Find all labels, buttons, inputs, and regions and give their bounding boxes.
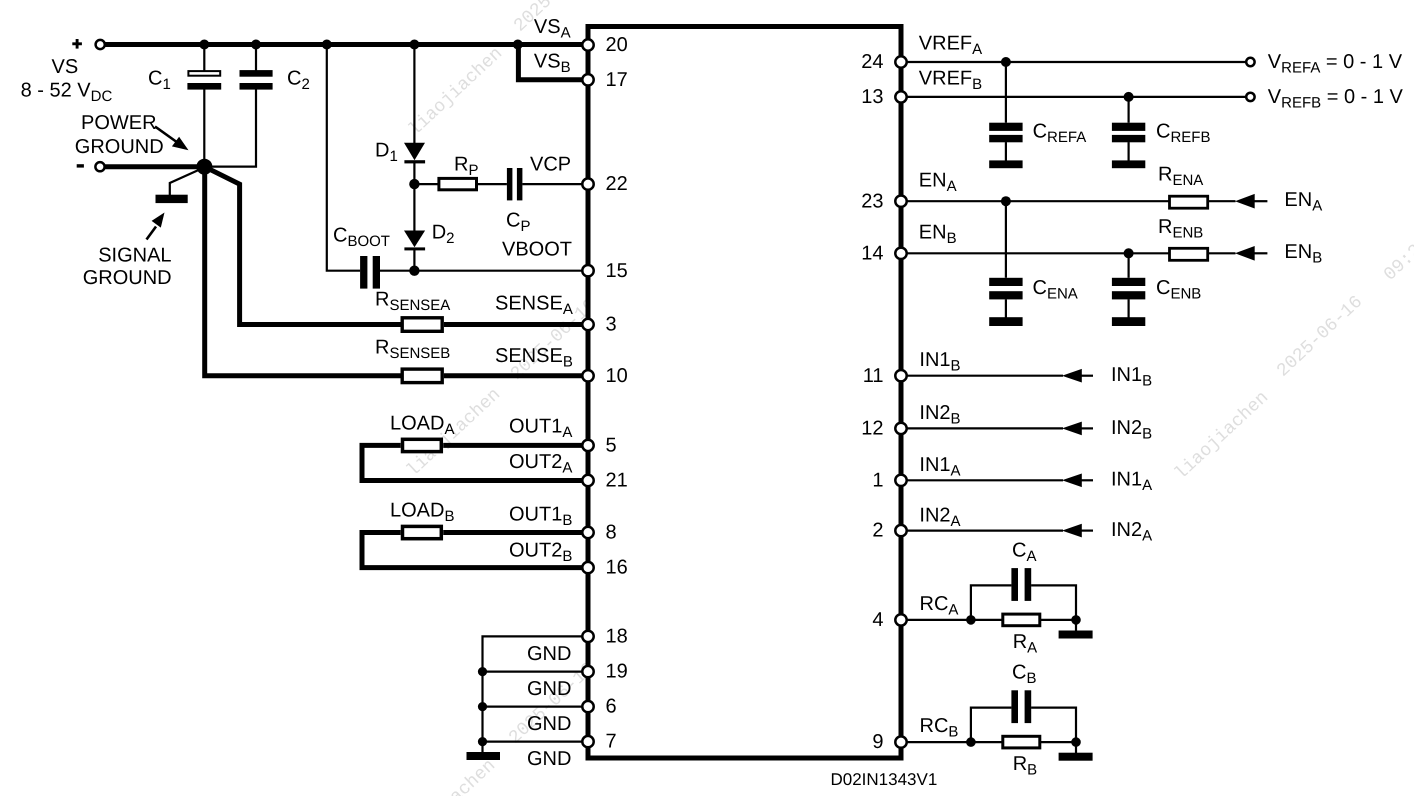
svg-text:2: 2 — [872, 520, 883, 542]
resistor Ra — [1003, 614, 1040, 626]
wire pin 6 to ground bus — [483, 705, 589, 707]
wire RCA right node to ground — [1075, 620, 1077, 631]
svg-text:GND: GND — [527, 713, 571, 735]
wire VBOOT node to pin 15 — [414, 270, 588, 272]
svg-text:GROUND: GROUND — [83, 267, 172, 289]
svg-text:10: 10 — [606, 365, 628, 387]
junction RCB left node — [966, 737, 976, 747]
svg-text:22: 22 — [606, 173, 628, 195]
capacitor Cp — [507, 168, 523, 200]
wire VSB to pin 17 — [518, 45, 588, 80]
arrow IN2B — [1062, 422, 1082, 436]
svg-text:4: 4 — [872, 609, 883, 631]
pin 9 circle — [895, 736, 906, 747]
pin 1 circle — [895, 475, 906, 486]
wire minus terminal to power ground node — [105, 164, 205, 169]
ground bar of Crefa — [989, 160, 1022, 168]
watermark text 4 — [398, 584, 658, 796]
pin 3 circle — [582, 319, 593, 330]
wire Cena to ground bar — [1005, 299, 1007, 318]
wire ENB arrow tail — [1254, 252, 1267, 254]
wire power ground to RsenseA — [206, 167, 403, 324]
svg-text:D02IN1343V1: D02IN1343V1 — [831, 770, 938, 789]
resistor LOADB — [403, 526, 442, 538]
wire C1 top stub — [203, 47, 205, 71]
pin 8 circle — [582, 527, 593, 538]
capacitor C1 (electrolytic, top plate hollow) — [187, 71, 221, 90]
wire Renb to ENB arrow — [1209, 252, 1236, 254]
pin 24 circle — [895, 56, 906, 67]
wire top rail to Cboot — [327, 47, 360, 271]
capacitor Cena — [989, 278, 1022, 300]
svg-text:GND: GND — [527, 678, 571, 700]
wire pin 2 IN2A — [901, 529, 1063, 531]
svg-text:GND: GND — [527, 643, 571, 665]
arrow IN2A — [1062, 524, 1082, 538]
svg-text:GND: GND — [527, 748, 571, 770]
wire C2 top stub — [255, 47, 257, 71]
terminal VREFA — [1246, 58, 1254, 66]
pin 13 circle — [895, 91, 906, 102]
arrow IN1B — [1062, 369, 1082, 383]
pin 11 circle — [895, 370, 906, 381]
signal ground arrow — [147, 213, 165, 240]
wire power ground to RsenseB (vertical) — [205, 168, 402, 376]
svg-text:8: 8 — [606, 522, 617, 544]
svg-text:24: 24 — [861, 51, 883, 73]
node VBOOT junction — [409, 266, 419, 276]
junction RCB right node — [1071, 737, 1081, 747]
ground bar of RCA — [1059, 631, 1093, 639]
wire pin 18 to ground bus — [483, 636, 589, 752]
pin 23 circle — [895, 196, 906, 207]
wire pin 23 to Rena — [901, 200, 1170, 202]
diode D1 — [404, 143, 425, 164]
wire Cb to right node — [1031, 708, 1076, 743]
svg-text:21: 21 — [606, 470, 628, 492]
wire LOADA to pin 21 — [362, 445, 588, 480]
junction RCA left node — [966, 615, 976, 625]
wire Rb to right node — [1041, 741, 1076, 743]
junction top rail at VSB branch — [513, 40, 523, 50]
wire VS supply top rail — [105, 42, 589, 47]
wire pin 19 to ground bus — [483, 670, 589, 672]
wire Cb branch RCB — [971, 708, 1012, 743]
wire Rp to Cp — [478, 183, 507, 185]
svg-text:VS: VS — [52, 56, 79, 78]
pin 4 circle — [895, 614, 906, 625]
wire ENA node to Cena — [1005, 201, 1007, 278]
wire LOADB to pin 16 — [362, 533, 588, 568]
svg-text:GROUND: GROUND — [75, 136, 164, 158]
svg-text:12: 12 — [861, 418, 883, 440]
svg-text:7: 7 — [606, 731, 617, 753]
wire RCB right node to ground — [1075, 742, 1077, 753]
label plus — [72, 39, 82, 49]
svg-text:VCP: VCP — [530, 154, 571, 176]
wire pin 14 to Renb — [901, 252, 1170, 254]
svg-text:5: 5 — [606, 435, 617, 457]
wire Cboot to VBOOT node — [380, 270, 415, 272]
wire Rena to ENA arrow — [1209, 200, 1236, 202]
power ground arrow — [155, 127, 189, 151]
power ground junction node — [196, 159, 212, 175]
capacitor Cboot — [360, 256, 380, 289]
pin 12 circle — [895, 423, 906, 434]
svg-text:11: 11 — [863, 365, 884, 387]
arrow ENA — [1235, 194, 1255, 209]
wire pin 12 IN2B — [901, 427, 1063, 429]
junction top rail at C1 — [199, 40, 209, 50]
svg-text:20: 20 — [606, 34, 628, 56]
wire signal ground branch — [170, 168, 203, 196]
svg-text:13: 13 — [861, 86, 883, 108]
wire ENA arrow tail — [1254, 200, 1267, 202]
pin 20 circle — [582, 39, 593, 50]
ground symbol below ground bus — [467, 752, 501, 760]
arrow IN1A — [1062, 474, 1082, 488]
resistor Renb — [1170, 248, 1208, 260]
resistor RsenseA — [402, 318, 442, 332]
svg-text:3: 3 — [606, 314, 617, 336]
junction RCA right node — [1071, 615, 1081, 625]
wire top rail to D1 anode — [413, 47, 415, 144]
wire pin 11 IN1B — [901, 375, 1063, 377]
pin 10 circle — [582, 370, 593, 381]
resistor RsenseB — [402, 369, 442, 383]
svg-text:19: 19 — [606, 661, 628, 683]
wire VCP node to Rp — [414, 183, 439, 185]
wire pin 4 to RCA network — [901, 619, 1003, 621]
capacitor Crefa — [989, 123, 1022, 143]
wire pin 24 to VREFA terminal — [901, 61, 1246, 63]
wire D1 cathode to D2 anode — [413, 163, 415, 231]
junction ENB node — [1124, 248, 1134, 258]
wire C2 bottom to power ground node — [210, 89, 256, 166]
watermark text 1 — [405, 0, 603, 140]
diode D2 — [404, 231, 425, 251]
wire IN2B arrow tail — [1082, 427, 1094, 429]
capacitor Ca — [1011, 568, 1031, 601]
wire pin 13 to VREFB terminal — [901, 96, 1246, 98]
pin 19 circle — [582, 666, 593, 677]
svg-text:16: 16 — [606, 557, 628, 579]
junction top rail at Cboot branch — [322, 40, 332, 50]
svg-text:18: 18 — [606, 626, 628, 648]
pin 5 circle — [582, 440, 593, 451]
resistor Rb — [1003, 736, 1040, 748]
arrow ENB — [1235, 246, 1255, 261]
resistor Rena — [1170, 196, 1208, 208]
wire RsenseB to pin 10 — [444, 373, 588, 378]
wire RsenseA to pin 3 — [444, 322, 588, 327]
svg-text:14: 14 — [861, 242, 883, 264]
wire Cenb to ground bar — [1127, 299, 1129, 318]
pin 6 circle — [582, 701, 593, 712]
wire pin 5 to LOADA — [443, 443, 588, 448]
ground bus junction at pin 19 — [478, 667, 487, 676]
wire Crefb to ground bar — [1127, 142, 1129, 161]
watermark text 3 — [1171, 234, 1414, 485]
capacitor Crefb — [1112, 123, 1145, 143]
wire Ca to right node — [1031, 585, 1076, 620]
svg-text:9: 9 — [872, 731, 883, 753]
wire IN2A arrow tail — [1082, 529, 1094, 531]
wire D2 cathode to VBOOT node — [413, 250, 415, 271]
wire pin 7 to ground bus — [483, 740, 589, 742]
pin 18 circle — [582, 631, 593, 642]
svg-text:SIGNAL: SIGNAL — [98, 245, 171, 267]
node VCP junction — [409, 179, 419, 189]
wire Ca branch RCA — [971, 585, 1012, 620]
ground bar of Cenb — [1112, 317, 1145, 326]
wire pin 1 IN1A — [901, 479, 1063, 481]
svg-text:1: 1 — [872, 469, 883, 491]
ground bus junction at pin 6 — [478, 702, 487, 711]
label minus — [77, 164, 84, 167]
pin 7 circle — [582, 736, 593, 747]
svg-text:SENSEA: SENSEA — [495, 293, 573, 319]
wire pin 8 to LOADB — [443, 530, 588, 535]
wire VREFB node to Crefb — [1127, 97, 1129, 123]
pin 2 circle — [895, 525, 906, 536]
junction VREFB node — [1124, 92, 1134, 102]
svg-text:VBOOT: VBOOT — [502, 239, 572, 261]
junction top rail at C2 — [251, 40, 261, 50]
junction top rail at D1 branch — [409, 40, 419, 50]
pin 14 circle — [895, 248, 906, 259]
pin 16 circle — [582, 562, 593, 573]
wire VREFA node to Crefa — [1005, 62, 1007, 123]
wire IN1B arrow tail — [1082, 375, 1094, 377]
pin 17 circle — [582, 74, 593, 85]
wire C1 bottom to power ground node — [203, 89, 205, 161]
terminal VS minus — [95, 162, 104, 171]
ground bar of Cena — [989, 317, 1022, 326]
capacitor Cb — [1011, 690, 1031, 723]
capacitor Cenb — [1112, 278, 1145, 300]
wire Cp to pin 22 — [522, 183, 588, 185]
resistor LOADA — [403, 439, 442, 451]
resistor Rp — [439, 178, 477, 189]
pin 22 circle — [582, 178, 593, 189]
svg-text:17: 17 — [606, 69, 628, 91]
svg-text:15: 15 — [606, 260, 628, 282]
pin 21 circle — [582, 475, 593, 486]
wire pin 9 to RCB network — [901, 741, 1003, 743]
capacitor C2 — [240, 70, 273, 90]
ground bus junction at pin 7 — [478, 737, 487, 746]
terminal VREFB — [1246, 93, 1254, 101]
ground bar of Crefb — [1112, 160, 1145, 168]
wire IN1A arrow tail — [1082, 479, 1094, 481]
pin 15 circle — [582, 265, 593, 276]
wire ENB node to Cenb — [1127, 253, 1129, 277]
svg-text:6: 6 — [606, 696, 617, 718]
wire Crefa to ground bar — [1005, 142, 1007, 161]
wire Ra to right node — [1041, 619, 1076, 621]
signal ground symbol — [156, 195, 188, 203]
svg-text:23: 23 — [861, 190, 883, 212]
terminal VS plus — [96, 40, 105, 49]
junction VREFA node — [1001, 57, 1011, 67]
svg-text:SENSEB: SENSEB — [495, 345, 573, 371]
ground bar of RCB — [1059, 753, 1093, 761]
svg-text:POWER: POWER — [81, 112, 157, 134]
IC U1 body — [588, 27, 901, 759]
junction ENA node — [1001, 196, 1011, 206]
